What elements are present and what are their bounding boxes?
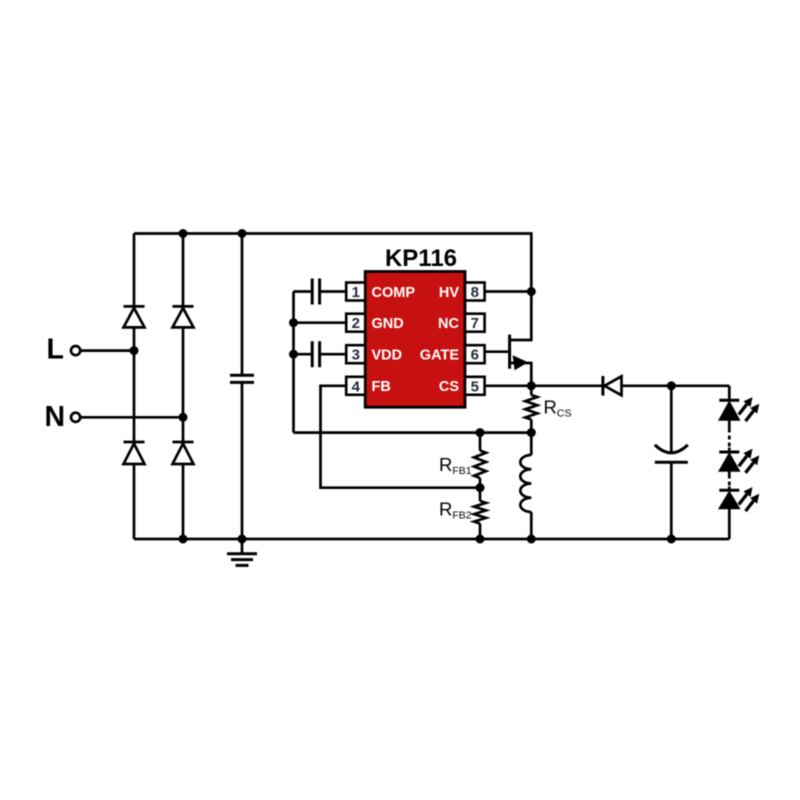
diode D1	[124, 306, 145, 327]
svg-text:8: 8	[471, 284, 479, 301]
node top rail junction 1	[179, 229, 188, 238]
svg-text:4: 4	[352, 378, 361, 395]
wire bottom rail	[134, 538, 729, 541]
svg-text:3: 3	[352, 347, 360, 364]
svg-text:7: 7	[471, 315, 479, 332]
capacitor C3 vdd	[294, 341, 347, 367]
diode D2	[173, 306, 194, 327]
node diode cap	[667, 381, 676, 390]
diode D4	[173, 442, 194, 464]
node bottom junction 3	[476, 535, 485, 544]
svg-text:GATE: GATE	[420, 348, 460, 364]
diode D3	[124, 442, 145, 464]
resistor R2 RFB1	[439, 433, 486, 488]
node HV	[527, 287, 536, 296]
capacitor C2 comp	[294, 279, 347, 305]
svg-text:COMP: COMP	[372, 285, 416, 301]
svg-text:N: N	[45, 401, 66, 433]
transistor Q1 mosfet	[485, 292, 532, 386]
node FB divider	[476, 483, 485, 492]
resistor R3 RFB2	[439, 488, 486, 539]
node bottom junction 1	[179, 535, 188, 544]
svg-text:CS: CS	[439, 379, 459, 395]
node CS	[527, 381, 536, 390]
pin 3 VDD	[346, 345, 402, 364]
wire top rail	[134, 234, 531, 292]
pin 1 COMP	[346, 283, 415, 302]
wire bridge column 2	[182, 234, 185, 540]
pin 4 FB	[346, 377, 391, 396]
node RFB1 top	[476, 428, 485, 437]
node bottom junction 4	[527, 535, 536, 544]
svg-text:FB: FB	[372, 379, 391, 395]
node bottom junction 2	[238, 535, 247, 544]
resistor R1 RCS	[525, 386, 571, 433]
terminal N	[45, 401, 184, 433]
wire left bypass bus	[292, 292, 295, 433]
pin 2 GND	[346, 314, 404, 333]
node bypass vdd	[289, 350, 298, 359]
svg-text:6: 6	[471, 347, 479, 364]
node N junction	[179, 413, 188, 422]
inductor L1	[520, 433, 531, 539]
LED LED3	[719, 487, 759, 511]
wire CS lead	[485, 384, 532, 387]
diode D5 freewheel	[603, 376, 671, 396]
node L junction	[130, 346, 139, 355]
LED LED1	[719, 397, 759, 421]
IC U1 KP116 body	[365, 245, 465, 407]
wire bridge column 1	[133, 234, 136, 540]
pin 8 HV	[439, 283, 485, 302]
node bypass gnd	[289, 318, 298, 327]
node top rail junction 2	[238, 229, 247, 238]
svg-text:L: L	[47, 334, 64, 366]
capacitor C1 bulk input	[230, 234, 254, 540]
capacitor C4 output	[655, 386, 688, 539]
pin 5 CS	[439, 377, 485, 396]
svg-text:VDD: VDD	[372, 348, 403, 364]
node inductor top	[527, 428, 536, 437]
node bottom junction 5	[667, 535, 676, 544]
wire gnd net horizontal	[294, 431, 532, 434]
wire diode to led	[671, 384, 729, 387]
terminal L	[47, 334, 135, 366]
svg-text:GND: GND	[372, 316, 404, 332]
svg-text:KP116: KP116	[385, 245, 457, 272]
ground	[227, 539, 257, 565]
svg-text:2: 2	[352, 315, 360, 332]
wire FB route	[321, 386, 481, 488]
pin 7 NC	[438, 314, 485, 333]
svg-text:NC: NC	[438, 316, 459, 332]
svg-text:1: 1	[352, 284, 360, 301]
wire gnd pin2	[294, 321, 347, 324]
svg-text:5: 5	[471, 378, 479, 395]
wire CS to diode	[531, 384, 603, 387]
svg-text:HV: HV	[439, 285, 459, 301]
pin 6 GATE	[420, 345, 485, 364]
wire HV lead	[485, 290, 532, 293]
LED LED2	[719, 449, 759, 473]
LED string wire	[728, 386, 731, 539]
